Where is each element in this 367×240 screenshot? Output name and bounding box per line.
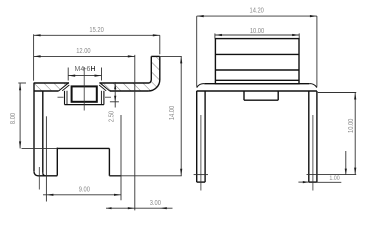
svg-text:14.20: 14.20 bbox=[250, 7, 265, 15]
svg-text:3.00: 3.00 bbox=[150, 200, 162, 208]
svg-text:10.00: 10.00 bbox=[347, 118, 355, 133]
svg-text:2.50: 2.50 bbox=[108, 111, 116, 123]
svg-text:12.00: 12.00 bbox=[76, 48, 91, 56]
svg-text:8.00: 8.00 bbox=[10, 113, 18, 125]
svg-text:10.00: 10.00 bbox=[250, 28, 265, 36]
svg-text:14.00: 14.00 bbox=[169, 105, 177, 120]
svg-text:9.00: 9.00 bbox=[79, 186, 91, 194]
svg-text:H: H bbox=[90, 66, 95, 73]
svg-text:1.00: 1.00 bbox=[329, 176, 340, 183]
svg-text:15.20: 15.20 bbox=[89, 26, 104, 34]
